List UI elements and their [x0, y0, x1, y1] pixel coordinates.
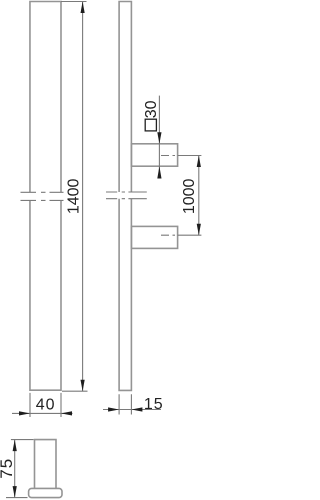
front view bar upper part: top edge + sides down to break — [30, 2, 61, 193]
svg-text:1000: 1000 — [181, 178, 198, 214]
arrow 40 right (left-pointing) — [61, 411, 72, 415]
detail base rounded rect — [29, 488, 62, 497]
arrow 1400 top (up) — [81, 2, 85, 14]
extension line bottom of 75 — [6, 497, 28, 499]
centerline upper post — [161, 155, 201, 157]
arrow sq30 top (down) — [157, 132, 161, 144]
square symbol of label sq30 — [145, 119, 156, 131]
dimension line square30 — [158, 96, 160, 179]
centerline lower post — [161, 234, 201, 236]
svg-text:75: 75 — [0, 458, 16, 479]
break line lower (front view) — [21, 199, 64, 201]
arrow 15 right (left-pointing) — [131, 407, 142, 411]
svg-text:40: 40 — [36, 396, 56, 413]
extension lines for 40 dimension — [30, 393, 61, 417]
arrow 75 top (up) — [13, 440, 17, 452]
svg-text:30: 30 — [143, 100, 160, 118]
arrow sq30 bottom (up) — [157, 166, 161, 178]
svg-text:15: 15 — [144, 396, 164, 413]
break line upper (front view) — [21, 191, 64, 193]
detail stem top edge + extension line for 75 — [11, 439, 34, 441]
dimension line 1400 — [82, 2, 84, 392]
front view bar lower part below break — [30, 200, 61, 390]
extension line at bar bottom for 1400 — [62, 390, 88, 392]
dimension line 75 — [14, 440, 16, 498]
svg-text:1400: 1400 — [66, 178, 83, 214]
lower mounting post (side view) — [131, 226, 177, 248]
side view bar upper part — [119, 2, 131, 193]
arrow 40 left (right-pointing) — [19, 411, 30, 415]
upper mounting post (side view) — [131, 144, 177, 166]
arrow 75 bottom (down) — [13, 486, 17, 498]
arrow 1000 bottom (down) — [197, 224, 201, 236]
arrow 1400 bottom (down) — [81, 380, 85, 392]
dimension line 40 — [12, 412, 73, 414]
arrow 1000 top (up) — [197, 156, 201, 168]
detail stem outline — [35, 440, 57, 489]
dimension line 1000 — [198, 156, 200, 236]
arrow 15 left (right-pointing) — [108, 407, 119, 411]
side view bar lower part below break — [119, 199, 131, 391]
dimension line 15 — [103, 409, 161, 411]
extension line from bar top to 1400 dimension — [61, 1, 87, 3]
extension lines for 15 dimension — [119, 394, 131, 414]
break line upper (side view) — [106, 191, 147, 193]
break line lower (side view) — [106, 198, 147, 200]
